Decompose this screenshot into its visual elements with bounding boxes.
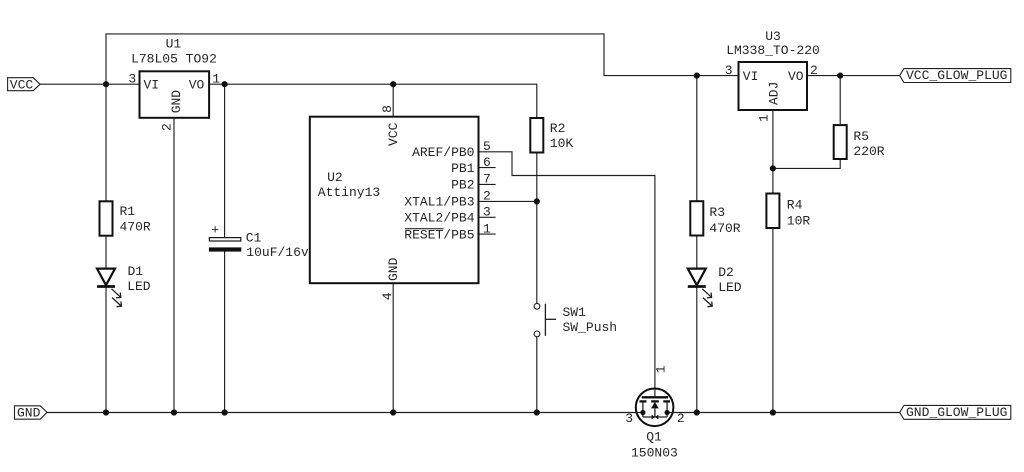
svg-text:470R: 470R: [709, 221, 740, 236]
wire U1 pin 2 GND column: [173, 118, 175, 413]
svg-text:R1: R1: [120, 204, 136, 219]
svg-text:150N03: 150N03: [631, 445, 678, 460]
switch SW1 SW_Push: [534, 303, 617, 336]
svg-text:VO: VO: [189, 78, 205, 93]
svg-text:2: 2: [677, 411, 685, 426]
MCU U2 Attiny13: [310, 105, 491, 300]
wire U2 pin 5 AREF/PB0 to Q1 gate: [479, 152, 655, 397]
svg-text:GND_GLOW_PLUG: GND_GLOW_PLUG: [906, 405, 1007, 420]
wire GND rail left of Q1: [47, 412, 636, 414]
svg-text:8: 8: [380, 105, 395, 113]
wire VCC rail right of U1 to R2 top corner: [209, 84, 537, 118]
svg-text:R4: R4: [787, 198, 803, 213]
svg-text:VCC: VCC: [10, 77, 34, 92]
svg-text:LED: LED: [718, 280, 742, 295]
junction U3 VO / R5: [837, 73, 843, 79]
svg-text:SW1: SW1: [563, 305, 587, 320]
junction GND rail / SW1 column: [534, 409, 540, 415]
resistor R5 220R: [834, 125, 885, 159]
regulator U3 LM338_TO-220: [725, 29, 820, 122]
net label GND_GLOW_PLUG: [900, 405, 1011, 420]
svg-text:D1: D1: [128, 264, 144, 279]
wire R4 bottom to GND rail: [772, 228, 774, 413]
svg-text:U1: U1: [166, 36, 182, 51]
svg-text:3: 3: [725, 63, 733, 78]
net label GND: [15, 405, 48, 420]
svg-text:VO: VO: [788, 69, 804, 84]
junction U2 pin 2 wire / R2 column: [534, 198, 540, 204]
svg-text:VCC: VCC: [386, 122, 401, 146]
svg-text:L78L05 TO92: L78L05 TO92: [131, 51, 217, 66]
wire GND rail right of Q1: [673, 412, 899, 414]
svg-text:470R: 470R: [120, 220, 151, 235]
junction VCC rail / R1 column: [103, 81, 109, 87]
svg-text:LM338_TO-220: LM338_TO-220: [726, 43, 820, 58]
net label VCC_GLOW_PLUG: [900, 68, 1011, 83]
svg-text:C1: C1: [246, 231, 262, 246]
svg-text:U2: U2: [327, 170, 343, 185]
pin stub U2 pin 1 RESET/PB5: [479, 233, 496, 235]
svg-text:VI: VI: [743, 69, 759, 84]
svg-text:XTAL1/PB3: XTAL1/PB3: [404, 195, 474, 210]
wire top bus from node at x=106 to U3 VI: [106, 34, 739, 84]
LED D1: [97, 264, 151, 307]
wire U2 pin 4 to GND rail: [392, 283, 394, 412]
wire R1/D1 column: [105, 84, 107, 201]
junction GND rail / R1 D1 column: [103, 409, 109, 415]
wire SW1 bottom to GND rail: [536, 337, 538, 413]
svg-text:2: 2: [160, 123, 175, 131]
wire VCC rail left of U1: [40, 83, 139, 85]
svg-text:5: 5: [483, 139, 491, 154]
pin stub U2 pin 3 XTAL2/PB4: [479, 216, 496, 218]
svg-text:2: 2: [483, 189, 491, 204]
svg-text:PB1: PB1: [451, 161, 475, 176]
svg-text:VI: VI: [144, 78, 160, 93]
svg-text:Attiny13: Attiny13: [318, 185, 380, 200]
svg-text:10R: 10R: [787, 214, 811, 229]
resistor R2 10K: [530, 118, 573, 153]
junction ADJ node: [770, 165, 776, 171]
svg-text:R5: R5: [853, 129, 869, 144]
resistor R3 470R: [690, 201, 741, 236]
svg-text:+: +: [211, 223, 219, 238]
svg-text:ADJ: ADJ: [766, 82, 781, 105]
wire U3 VO to VCC_GLOW_PLUG: [807, 75, 900, 77]
svg-text:R2: R2: [550, 121, 566, 136]
svg-text:AREF/PB0: AREF/PB0: [412, 145, 474, 160]
svg-text:1: 1: [483, 221, 491, 236]
svg-text:GND: GND: [169, 90, 184, 114]
svg-text:GND: GND: [17, 405, 41, 420]
svg-text:R3: R3: [709, 205, 725, 220]
junction VCC rail / C1 column: [222, 81, 228, 87]
pin stub U2 pin 6 PB1: [479, 167, 496, 169]
wire VO node down to R5 top: [839, 76, 841, 126]
svg-text:3: 3: [625, 411, 633, 426]
svg-text:220R: 220R: [853, 144, 884, 159]
svg-text:XTAL2/PB4: XTAL2/PB4: [404, 211, 474, 226]
svg-text:RESET/PB5: RESET/PB5: [404, 227, 474, 242]
transistor Q1 150N03 N-MOSFET: [625, 365, 685, 460]
resistor R1 470R: [100, 201, 151, 235]
net label VCC: [8, 77, 41, 92]
svg-text:1: 1: [654, 365, 669, 373]
svg-text:1: 1: [212, 72, 220, 87]
svg-text:U3: U3: [765, 29, 781, 44]
svg-text:Q1: Q1: [646, 429, 662, 444]
wire U2 pin 2 XTAL1/PB3 to R2 column: [479, 200, 537, 202]
svg-text:6: 6: [483, 155, 491, 170]
resistor R4 10R: [766, 194, 810, 229]
junction GND rail / R4 column: [770, 409, 776, 415]
svg-text:SW_Push: SW_Push: [563, 320, 618, 335]
svg-text:LED: LED: [127, 279, 151, 294]
svg-text:PB2: PB2: [451, 178, 474, 193]
svg-text:GND: GND: [386, 257, 401, 281]
svg-text:D2: D2: [718, 265, 734, 280]
junction GND rail / D2 column: [694, 409, 700, 415]
svg-text:VCC_GLOW_PLUG: VCC_GLOW_PLUG: [906, 68, 1007, 83]
LED D2: [688, 265, 742, 307]
wire R3/D2 column from U3 VI node: [696, 76, 698, 202]
svg-text:7: 7: [483, 172, 491, 187]
svg-text:3: 3: [483, 205, 491, 220]
wire R5 bottom elbow to ADJ node: [773, 159, 840, 168]
regulator U1 L78L05 TO92: [128, 36, 220, 131]
wire U2 pin 8 to VCC rail: [392, 84, 394, 117]
svg-text:4: 4: [380, 292, 395, 300]
svg-text:1: 1: [757, 114, 772, 122]
svg-text:2: 2: [810, 63, 818, 78]
svg-text:10K: 10K: [550, 136, 574, 151]
svg-text:10uF/16v: 10uF/16v: [246, 245, 309, 260]
junction GND rail / U2 pin 4: [390, 409, 396, 415]
junction GND rail / C1 column: [222, 409, 228, 415]
junction GND rail / U1 pin 2: [171, 409, 177, 415]
wire C1 column: [224, 84, 226, 237]
pin stub U2 pin 7 PB2: [479, 183, 496, 185]
junction VCC rail / U2 pin 8: [390, 81, 396, 87]
wire R2 bottom to SW1: [536, 153, 538, 304]
junction top bus / R3 column at U3 VI: [694, 73, 700, 79]
wire U3 ADJ pin down to node: [772, 110, 774, 194]
capacitor C1 10uF/16v (polarized): [209, 223, 309, 260]
svg-text:3: 3: [128, 72, 136, 87]
